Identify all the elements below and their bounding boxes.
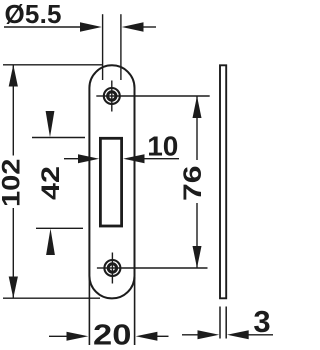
dim 42: extension line top (32, 137, 85, 139)
dim 42: arrowhead up (below bottom ext line) (46, 229, 55, 256)
dim 76: extension line bottom (from hole crosshair) (112, 267, 207, 269)
dim 3: arrowhead pointing right (198, 330, 220, 339)
latch cutout rectangle (100, 138, 121, 226)
dim 20: right tail (157, 335, 169, 337)
svg-text:102: 102 (0, 159, 25, 207)
dim 10: left tail (64, 158, 79, 160)
dim 102: dimension line upper segment (12, 65, 14, 156)
dim Ø5.5: extension line left (102, 14, 104, 80)
screw hole bottom: crosshair horizontal (left part) (97, 267, 113, 269)
dim Ø5.5: extension line right (120, 14, 122, 80)
dim 102: arrowhead up (9, 65, 18, 87)
dim Ø5.5: left leader/tail (4, 26, 81, 28)
strike plate outline (front view, stadium shape) (89, 65, 134, 298)
dim 3: arrowhead pointing left (227, 330, 249, 339)
screw hole bottom: outer circle (104, 260, 120, 276)
screw hole top: crosshair horizontal (left part) (96, 95, 112, 97)
svg-text:Ø5.5: Ø5.5 (5, 0, 62, 29)
side view strip (plate thickness) (220, 65, 226, 298)
screw hole bottom: countersink ring (108, 264, 116, 272)
svg-text:10: 10 (147, 130, 178, 161)
dim 10: arrowhead pointing left (123, 154, 144, 163)
dim 10: arrowhead pointing right (78, 154, 99, 163)
dim 76: dimension line lower segment (196, 203, 198, 268)
screw hole top: crosshair vertical (111, 81, 113, 112)
dim Ø5.5: arrowhead pointing left (122, 22, 144, 31)
dim 3: extension line left (219, 307, 221, 339)
dim 42: arrowhead down (above top ext line) (46, 111, 55, 137)
dim 102: extension line bottom (3, 297, 100, 299)
dim 102: extension line top (3, 64, 103, 66)
dim 102: dimension line lower segment (12, 208, 14, 298)
dim 76: arrowhead up (193, 96, 202, 118)
dim 102: arrowhead down (9, 277, 18, 299)
dim 3: right tail (248, 334, 273, 336)
dim Ø5.5: right tail (143, 26, 156, 28)
dim 3: extension line right (225, 307, 227, 339)
dim 20: extension line right (134, 277, 136, 345)
screw hole top: outer circle (104, 88, 120, 104)
dim 42: extension line bottom (36, 227, 83, 229)
screw hole top: countersink ring (108, 92, 116, 100)
dim 20: arrowhead pointing right (67, 332, 89, 341)
dim 20: left tail (49, 335, 67, 337)
svg-text:3: 3 (253, 304, 270, 339)
dim 76: arrowhead down (193, 246, 202, 268)
dim 20: arrowhead pointing left (136, 332, 158, 341)
dim 10: right tail (144, 158, 179, 160)
dim 3: left tail (182, 334, 199, 336)
screw hole bottom: crosshair vertical (111, 253, 113, 284)
svg-text:42: 42 (37, 166, 65, 200)
dim 76: extension line top (from hole crosshair) (112, 95, 210, 97)
dim Ø5.5: arrowhead pointing right (80, 22, 102, 31)
dim 20: extension line left (88, 277, 90, 345)
svg-text:76: 76 (179, 165, 207, 201)
dim 76: dimension line upper segment (196, 96, 198, 160)
svg-text:20: 20 (93, 318, 131, 350)
